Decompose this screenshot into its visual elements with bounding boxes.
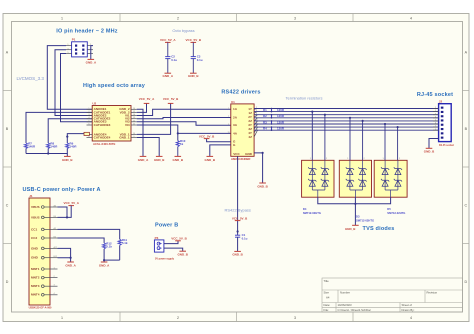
wire U2 VDD_1 to VCC flag [137, 103, 171, 134]
svg-text:GND_B: GND_B [62, 158, 73, 162]
svg-text:GND_B: GND_B [345, 227, 356, 231]
wire U2 VI1 to U1 1A [137, 109, 231, 115]
svg-text:Title: Title [324, 279, 330, 283]
wire R8 to ground rail [47, 149, 49, 154]
ground GND_A (J1) [65, 262, 76, 267]
junction on R9 wire [66, 136, 68, 138]
junction VI4/R10 [177, 132, 179, 134]
svg-text:VCC_5V_B: VCC_5V_B [171, 237, 187, 241]
resistor R11 5.1k [118, 238, 128, 245]
svg-text:LVCMOS_3.3: LVCMOS_3.3 [17, 76, 45, 81]
wire VBUS pins junction [58, 206, 72, 218]
resistor R9 140R [66, 142, 78, 149]
svg-text:3: 3 [294, 316, 296, 320]
svg-text:Power B: Power B [155, 222, 178, 228]
svg-text:J2: J2 [439, 100, 443, 104]
svg-text:R3: R3 [263, 120, 267, 124]
resistor R1 120R termination [263, 108, 285, 113]
svg-text:D4: D4 [303, 207, 307, 211]
resistor R7 140R [24, 142, 36, 149]
ground GND_B (U1 G-bar) [205, 156, 216, 161]
svg-text:Drawn By:: Drawn By: [402, 308, 415, 312]
svg-text:1: 1 [61, 316, 63, 320]
resistor R12 5.1k [103, 242, 113, 249]
svg-text:VBUS: VBUS [31, 205, 40, 209]
wire to TVS diode pin [384, 123, 386, 160]
power flag VCC_5V_B (U1 enable) [199, 134, 215, 138]
resistor R10 pulldown [176, 133, 185, 156]
svg-text:GND_A: GND_A [99, 263, 110, 267]
wire U2 VI2 to U1 2A [137, 118, 231, 119]
wire header right pins to ground [91, 46, 93, 60]
ground GND_B (U1) [257, 183, 268, 188]
svg-text:120R: 120R [277, 108, 285, 112]
svg-text:High speed octo array: High speed octo array [83, 83, 146, 89]
capacitor C3 0.1u [191, 55, 203, 62]
U1 GND pin wire to ground [254, 153, 263, 183]
svg-text:USB4125-GF-A-060: USB4125-GF-A-060 [29, 307, 52, 310]
connector P3 5V power [154, 236, 174, 261]
svg-text:D: D [464, 280, 467, 284]
svg-text:GND: GND [31, 256, 39, 260]
svg-text:J1: J1 [29, 194, 33, 198]
wire flag to capacitor C2 [167, 42, 169, 56]
wire R9 to ground rail [66, 149, 68, 154]
svg-text:CATHODE3: CATHODE3 [94, 123, 111, 127]
svg-text:RJ-45 socket: RJ-45 socket [439, 144, 454, 147]
wire flag to capacitor C3 [192, 42, 194, 56]
ground GND_B (J2) [424, 148, 435, 153]
svg-text:R2: R2 [263, 114, 267, 118]
svg-text:AM26C31IDBR: AM26C31IDBR [231, 157, 250, 161]
op-amp/octocoupler IC U2 ACSL-6400 [92, 102, 131, 146]
ground GND_A (U2) [138, 156, 149, 161]
svg-text:R4: R4 [263, 127, 267, 131]
wire P3 pin1 to VCC flag [164, 241, 178, 244]
svg-text:5.1k: 5.1k [122, 241, 128, 245]
wire U2 CATHODE2 to R8 [48, 119, 92, 143]
svg-text:TVS diodes: TVS diodes [363, 226, 395, 232]
svg-text:R1: R1 [263, 108, 267, 112]
svg-text:120R: 120R [277, 114, 285, 118]
ground rail wire below R7-R9 [26, 154, 67, 157]
ground GND_A (cap C2) [163, 73, 174, 78]
svg-text:D5: D5 [387, 207, 391, 211]
power flag VCC_5V_A (bypass cap C2) [160, 38, 176, 42]
svg-text:GND_B: GND_B [424, 150, 435, 154]
ground GND_B (cap C3) [188, 73, 199, 78]
svg-text:140R: 140R [28, 145, 36, 149]
svg-text:5V power supply: 5V power supply [155, 258, 175, 261]
svg-text:GND: GND [245, 152, 253, 156]
svg-text:MNT3: MNT3 [31, 284, 40, 288]
svg-text:GND_B: GND_B [173, 158, 184, 162]
wire to TVS diode pin [324, 114, 326, 161]
svg-text:3: 3 [294, 16, 296, 20]
wire header pin5 to U2 ANODE3 [61, 54, 93, 122]
svg-text:SM712-02HTG: SM712-02HTG [356, 218, 374, 222]
U2 pin numbers [88, 108, 136, 138]
ground GND_B (U2 GND_1) [154, 156, 165, 161]
wire U2 enable pin to R9 [67, 134, 84, 143]
svg-text:GND_A: GND_A [86, 61, 97, 65]
junction C1/VCC [237, 230, 239, 232]
power flag VCC_5V_B (C1) [232, 216, 248, 220]
wire CC1 to R11 [58, 229, 120, 239]
TVS common ground bus [318, 197, 391, 225]
svg-text:1: 1 [61, 16, 63, 20]
TVS diode array D5 SM712-02HTG [374, 158, 407, 215]
U1 G-bar wire to ground [210, 145, 231, 157]
resistor R4 120R termination [263, 126, 285, 131]
svg-text:RJ-45 socket: RJ-45 socket [417, 92, 453, 98]
resistor R2 120R termination [263, 114, 285, 119]
svg-text:U2: U2 [92, 102, 96, 106]
U1 G enable wire to VCC flag [207, 139, 231, 142]
wire U2 GND_1 to ground [137, 138, 160, 157]
svg-text:120R: 120R [277, 120, 285, 124]
svg-text:CC2: CC2 [31, 236, 37, 240]
svg-text:GND_A: GND_A [163, 74, 174, 78]
svg-text:U1: U1 [231, 100, 235, 104]
power flag VCC_5V_B (bypass cap C3) [186, 38, 202, 42]
wire CC2 to R12 [58, 238, 105, 243]
ground GND_A (pin header) [86, 59, 97, 64]
wire to TVS diode pin [362, 120, 364, 161]
svg-text:IO pin header ~ 2 MHz: IO pin header ~ 2 MHz [56, 29, 118, 35]
power flag VCC_5V_A (U2) [139, 97, 155, 103]
svg-text:Revision: Revision [427, 291, 438, 295]
wire J1 GND pins to ground [58, 248, 71, 262]
ground GND_B (R10) [173, 156, 184, 161]
svg-text:C: C [6, 204, 9, 208]
svg-text:CC1: CC1 [31, 227, 37, 231]
svg-text:P1: P1 [72, 38, 76, 42]
svg-text:GND: GND [31, 246, 39, 250]
power flag VCC_5V_B (P3) [171, 237, 187, 241]
wire capacitor C3 to ground [192, 59, 194, 74]
svg-text:VCC: VCC [233, 152, 240, 156]
svg-text:0.1u: 0.1u [171, 58, 177, 62]
J1 pins [31, 204, 58, 296]
svg-text:2: 2 [177, 16, 179, 20]
svg-text:5.1k: 5.1k [106, 245, 112, 249]
wire to TVS diode pin [349, 117, 351, 161]
svg-text:C: C [464, 204, 467, 208]
svg-text:4: 4 [410, 316, 412, 320]
svg-text:VCC_5V_A: VCC_5V_A [160, 38, 176, 42]
wires U1 outputs to RJ-45 (8 lines) [254, 109, 439, 131]
wire U2 CATHODE1 to R7 [26, 112, 92, 143]
connector J1 USB-C [29, 194, 52, 309]
svg-text:ACSL-6400-50TE: ACSL-6400-50TE [93, 142, 116, 146]
svg-text:4Z: 4Z [248, 135, 252, 139]
U1 pin numbers [227, 107, 258, 134]
svg-text:GND_B: GND_B [177, 252, 188, 256]
svg-text:RS422 drivers: RS422 drivers [221, 90, 260, 96]
svg-text:GND_B: GND_B [232, 252, 243, 256]
svg-text:4: 4 [410, 16, 412, 20]
wire C1 to ground [237, 237, 239, 251]
TVS diode array D4 SM712-02HTG [302, 158, 334, 215]
svg-text:GND_B: GND_B [257, 184, 268, 188]
wire to TVS diode pin [311, 111, 313, 161]
svg-text:120R: 120R [277, 127, 285, 131]
TVS diode array D3 SM712-02HTG [339, 158, 374, 222]
resistor R3 120R termination [263, 120, 285, 125]
U2 enable pin box [84, 132, 89, 135]
svg-text:C:\Users\..\Sheet1.SchDoc: C:\Users\..\Sheet1.SchDoc [338, 308, 372, 312]
svg-text:Date:: Date: [324, 303, 331, 307]
svg-text:File:: File: [324, 308, 330, 312]
ground GND_A (CC pulldown) [99, 262, 110, 267]
connector J2 RJ-45 [439, 100, 454, 147]
wire U2 VI3 to U1 3A [137, 122, 231, 125]
power flag VCC_5V_A (J1 VBUS) [63, 201, 79, 205]
svg-text:SM712-02HTG: SM712-02HTG [387, 211, 405, 215]
svg-text:GND_1: GND_1 [119, 135, 130, 139]
ground GND_B (octo cathode rail) [62, 156, 73, 161]
svg-text:MNT2: MNT2 [31, 276, 40, 280]
wire U2 VI4 to U1 4A [137, 125, 231, 133]
U1 right pin fan stubs [254, 109, 257, 137]
ground GND_B (P3) [177, 251, 188, 256]
svg-text:Octo bypass: Octo bypass [172, 28, 194, 33]
svg-text:RS422 Bypass: RS422 Bypass [224, 207, 250, 212]
svg-text:Size: Size [324, 291, 330, 295]
svg-text:0.1u: 0.1u [242, 237, 248, 241]
wire header pin1 to U2 ANODE1 [47, 46, 92, 110]
junction ground rail [47, 152, 49, 154]
svg-text:P3: P3 [155, 236, 159, 240]
resistor R8 140R [47, 142, 59, 149]
svg-text:140R: 140R [50, 145, 58, 149]
ground GND_B (TVS) [345, 225, 359, 231]
svg-text:SM712-02HTG: SM712-02HTG [303, 211, 321, 215]
svg-text:GND_A: GND_A [65, 263, 76, 267]
wire capacitor C2 to ground [167, 59, 169, 74]
J2 shield wire to ground [429, 139, 439, 149]
svg-text:VCC_5V_B: VCC_5V_B [163, 97, 179, 101]
wire U2 GND_2 to ground [137, 109, 143, 156]
wire R7 to ground rail [25, 149, 27, 154]
svg-text:A4: A4 [326, 296, 330, 300]
svg-text:GND_B: GND_B [205, 158, 216, 162]
svg-text:CATHODE4: CATHODE4 [94, 135, 111, 139]
IC U1 AM26C31 RS422 driver [231, 100, 254, 161]
svg-text:0.1u: 0.1u [197, 58, 203, 62]
svg-text:140R: 140R [70, 145, 78, 149]
svg-text:Termination resistors: Termination resistors [286, 95, 323, 100]
svg-text:MNT4: MNT4 [31, 293, 40, 297]
P1 pin numbers [67, 44, 92, 54]
svg-text:VCC_5V_A: VCC_5V_A [63, 201, 79, 205]
svg-text:GND_A: GND_A [138, 158, 149, 162]
svg-text:VBUS: VBUS [31, 215, 40, 219]
svg-text:1k: 1k [180, 142, 184, 146]
svg-text:MNT1: MNT1 [31, 267, 40, 271]
J2 pin stubs [433, 109, 439, 131]
svg-text:10/26/2023: 10/26/2023 [338, 303, 352, 307]
svg-text:D3: D3 [356, 215, 360, 219]
svg-text:VCC_5V_A: VCC_5V_A [139, 97, 155, 101]
svg-text:GND_B: GND_B [154, 158, 165, 162]
wire R11/R12 common to ground [104, 259, 120, 261]
U1 VCC pin wire down to bypass cap C1 [237, 156, 239, 235]
power flag VCC_5V_B (U2) [163, 97, 179, 103]
wire P3 pin2 to ground [164, 248, 183, 251]
J2 pin numbers [435, 107, 437, 131]
svg-text:VI4: VI4 [125, 123, 130, 127]
svg-text:Sheet of: Sheet of [402, 303, 413, 307]
svg-text:Number: Number [340, 291, 350, 295]
svg-text:D: D [6, 280, 9, 284]
svg-text:VCC_5V_B: VCC_5V_B [186, 38, 202, 42]
svg-text:VCC_5V_B: VCC_5V_B [199, 134, 215, 138]
svg-text:USB-C power only- Power A: USB-C power only- Power A [23, 187, 101, 193]
wire header pin3 to U2 ANODE2 [55, 50, 92, 116]
capacitor C1 0.1u [235, 233, 248, 240]
capacitor C2 0.1u [165, 55, 177, 62]
pin header P1 [72, 38, 88, 57]
U2 pin names and stubs [87, 109, 137, 137]
svg-text:VCC_5V_B: VCC_5V_B [232, 216, 248, 220]
wire U2 VDD_2 to VCC flag [137, 103, 147, 112]
svg-text:2: 2 [177, 316, 179, 320]
svg-text:GND_B: GND_B [188, 74, 199, 78]
wire to TVS diode pin [397, 126, 399, 160]
ground GND_B (C1) [232, 251, 243, 256]
P1 left pin stubs [66, 46, 93, 54]
